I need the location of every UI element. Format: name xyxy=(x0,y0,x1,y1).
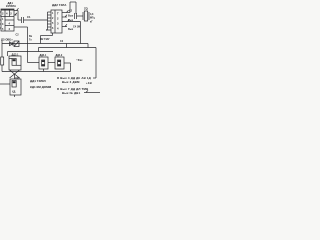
svg-text:−Fвх: −Fвх xyxy=(76,58,83,62)
svg-text:МГц: МГц xyxy=(90,17,95,20)
svg-text:ДДЗ.1: ДДЗ.1 xyxy=(12,53,20,56)
svg-text:+1В: +1В xyxy=(86,81,92,85)
svg-text:КД1 КМ ДОММ: КД1 КМ ДОММ xyxy=(30,85,52,89)
svg-text:М2 74АГ: М2 74АГ xyxy=(40,38,50,41)
svg-text:ДД2 74ЛА: ДД2 74ЛА xyxy=(52,3,67,7)
svg-text:ДД5: ДД5 xyxy=(15,77,20,80)
svg-text:Вых 3 ДВМ: Вых 3 ДВМ xyxy=(62,80,80,84)
svg-text:С4 1М: С4 1М xyxy=(73,26,80,29)
svg-text:Вых: Вых xyxy=(68,19,74,22)
svg-text:ДД1 74ЛЕ5: ДД1 74ЛЕ5 xyxy=(30,79,46,83)
svg-text:ХД: ХД xyxy=(12,91,16,94)
svg-text:ДД4.2: ДД4.2 xyxy=(56,54,63,57)
svg-text:Вых № ДВ1: Вых № ДВ1 xyxy=(62,91,81,95)
svg-text:ЛЗ ОВБ+: ЛЗ ОВБ+ xyxy=(1,38,13,42)
svg-text:Вых: Вых xyxy=(68,14,74,17)
svg-text:С1: С1 xyxy=(27,15,31,19)
svg-text:ZQ: ZQ xyxy=(84,7,88,11)
svg-text:ДД4.1: ДД4.1 xyxy=(40,54,47,57)
svg-text:К155ЛА: К155ЛА xyxy=(6,4,16,8)
